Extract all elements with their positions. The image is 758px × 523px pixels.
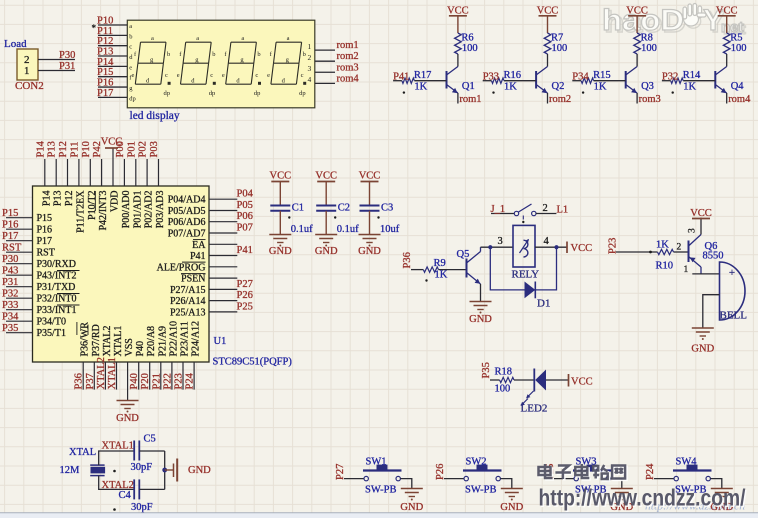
svg-text:SW-PB: SW-PB <box>465 484 497 495</box>
svg-text:e: e <box>222 72 225 79</box>
svg-text:VDD: VDD <box>110 191 121 213</box>
svg-text:100: 100 <box>495 384 511 395</box>
svg-text:P04: P04 <box>237 189 254 200</box>
svg-text:dp: dp <box>254 90 261 97</box>
wire U1 left pin P15 <box>6 217 33 219</box>
svg-text:b: b <box>303 51 306 58</box>
svg-text:1: 1 <box>684 265 689 275</box>
svg-text:+: + <box>729 267 735 279</box>
svg-text:R8: R8 <box>641 33 653 44</box>
svg-text:P05/AD5: P05/AD5 <box>168 206 206 217</box>
svg-text:P26: P26 <box>435 464 446 480</box>
svg-text:P24: P24 <box>185 372 196 389</box>
wire U1 bottom pin P21/A9 <box>160 362 162 390</box>
capacitor C3 <box>360 205 380 207</box>
svg-text:1: 1 <box>308 42 312 51</box>
svg-text:J_1: J_1 <box>491 204 506 215</box>
svg-text:1: 1 <box>24 65 30 77</box>
svg-text:10uf: 10uf <box>380 224 400 235</box>
wire U1 bottom pin P40 <box>138 362 140 390</box>
svg-text:P41: P41 <box>393 72 409 83</box>
svg-text:SW1: SW1 <box>366 456 387 467</box>
7-segment digit 2 <box>177 35 216 97</box>
svg-text:VCC: VCC <box>571 376 593 387</box>
junction marker <box>288 216 290 218</box>
wire U1 bottom pin XTAL2 <box>104 362 106 390</box>
wire emitter <box>547 93 549 104</box>
svg-text:P30: P30 <box>59 50 75 61</box>
svg-text:1K: 1K <box>656 240 669 251</box>
svg-text:P31: P31 <box>59 61 75 72</box>
svg-text:VCC: VCC <box>359 170 381 181</box>
wire display pin f <box>98 76 127 78</box>
switch SW4 <box>673 465 712 481</box>
svg-text:SW-PB: SW-PB <box>365 484 397 495</box>
wire U1 left pin P35/T1 <box>6 332 33 334</box>
svg-text:e: e <box>132 72 135 79</box>
svg-text:P27: P27 <box>335 464 346 480</box>
svg-text:R10: R10 <box>656 261 674 272</box>
wire U1 right pin PSEN <box>209 277 237 279</box>
svg-text:SW4: SW4 <box>676 456 698 467</box>
wire U1 right pin EA <box>209 243 237 245</box>
svg-text:P41: P41 <box>237 245 253 256</box>
bell BELL <box>720 262 746 320</box>
resistor R14 <box>671 78 684 83</box>
ground GND (BELL) <box>692 327 714 329</box>
svg-text:VCC: VCC <box>690 208 712 219</box>
svg-text:R17: R17 <box>414 70 432 81</box>
7-segment digit 1 <box>132 35 171 97</box>
wire U1 top pin P42/INT3 <box>101 159 103 186</box>
7-segment digit 3 <box>222 35 261 97</box>
svg-text:rom4: rom4 <box>337 73 360 84</box>
wire U1 left pin P34/T0 <box>6 320 33 322</box>
svg-text:0.1uf: 0.1uf <box>337 224 359 235</box>
svg-text:P34: P34 <box>572 72 589 83</box>
svg-text:100: 100 <box>641 43 657 54</box>
wire emitter <box>636 93 638 104</box>
junction marker <box>492 91 494 93</box>
svg-text:3: 3 <box>688 228 698 233</box>
svg-text:EA: EA <box>192 240 206 251</box>
svg-text:30pF: 30pF <box>131 502 153 513</box>
svg-text:VCC: VCC <box>716 6 738 17</box>
svg-text:3: 3 <box>308 64 312 73</box>
transistor Q2 <box>536 67 547 94</box>
wire U1 left pin P31/TXD <box>6 286 33 288</box>
wire node 3 <box>481 246 514 248</box>
capacitor C4 <box>133 479 135 499</box>
svg-text:GND: GND <box>691 344 714 355</box>
wire U1 left pin P33/INT1 <box>6 309 33 311</box>
power port VCC (relay) <box>566 242 568 254</box>
svg-text:P04/AD4: P04/AD4 <box>168 195 206 206</box>
svg-text:P24/A12: P24/A12 <box>191 321 202 357</box>
junction marker <box>672 91 674 93</box>
svg-text:VCC: VCC <box>101 137 123 148</box>
svg-text:a: a <box>287 35 290 42</box>
wire emitter <box>457 93 459 104</box>
svg-text:rom3: rom3 <box>639 94 661 105</box>
wire C5 right <box>139 450 164 452</box>
svg-text:GND: GND <box>269 246 292 257</box>
ground GND (SW2) <box>501 488 523 490</box>
svg-text:b: b <box>129 33 132 40</box>
svg-text:XTAL: XTAL <box>69 447 96 458</box>
wire U1 top pin P13 <box>55 159 57 186</box>
svg-text:P00/AD0: P00/AD0 <box>121 191 132 229</box>
svg-text:P16: P16 <box>97 78 113 89</box>
svg-text:P31/TXD: P31/TXD <box>37 282 76 293</box>
svg-text:P16: P16 <box>37 225 53 236</box>
svg-text:P23/A11: P23/A11 <box>180 321 191 356</box>
svg-text:P12: P12 <box>64 191 75 207</box>
svg-text:P13: P13 <box>53 191 64 207</box>
svg-text:C2: C2 <box>338 203 350 214</box>
wire to SW3 <box>554 478 574 480</box>
overline INT <box>57 293 80 295</box>
resistor R10 <box>658 249 674 254</box>
svg-text:GND: GND <box>400 502 423 513</box>
svg-text:e: e <box>129 64 132 71</box>
wire U1 right pin P07/AD7 <box>209 232 237 234</box>
svg-text:P35: P35 <box>481 362 492 378</box>
wire base (P33) <box>483 80 492 82</box>
wire U1 bottom pin P37/RD <box>93 362 95 390</box>
svg-text:Q1: Q1 <box>462 81 475 92</box>
wire display pin d <box>98 55 127 57</box>
svg-text:P13: P13 <box>47 141 58 157</box>
svg-text:c: c <box>165 72 168 79</box>
svg-text:P17: P17 <box>37 236 53 247</box>
svg-text:P30: P30 <box>2 254 18 265</box>
wire base Q5 <box>411 269 423 271</box>
IC U1 body <box>33 186 210 362</box>
junction marker <box>425 279 427 281</box>
watermark haoDIY.net logo <box>604 6 746 39</box>
ground GND (Q5) <box>470 301 492 303</box>
svg-text:c: c <box>210 72 213 79</box>
svg-text:P40: P40 <box>135 341 146 357</box>
wire U1 right pin ALE/PROG <box>209 266 237 268</box>
svg-text:XTAL1: XTAL1 <box>102 441 134 452</box>
svg-text:P36: P36 <box>402 252 413 268</box>
wire bell pin2 <box>703 295 720 328</box>
svg-text:VCC: VCC <box>537 6 559 17</box>
svg-text:P10: P10 <box>81 141 92 157</box>
svg-text:rom3: rom3 <box>337 62 359 73</box>
svg-text:P03/AD3: P03/AD3 <box>155 191 166 229</box>
svg-text:rom2: rom2 <box>337 51 359 62</box>
ground GND (U1 VSS) <box>117 400 139 402</box>
wire U1 right pin P41 <box>209 255 237 257</box>
transistor Q1 <box>447 67 458 94</box>
resistor R9 <box>423 267 438 272</box>
svg-text:P34/T0: P34/T0 <box>37 317 66 328</box>
svg-text:VCC: VCC <box>571 243 593 254</box>
svg-text:P43/INT2: P43/INT2 <box>37 271 77 282</box>
svg-text:Q4: Q4 <box>731 81 745 92</box>
svg-text:http://www.cndzz.com/: http://www.cndzz.com/ <box>539 485 747 511</box>
ground GND (C3) <box>359 234 381 236</box>
svg-text:STC89C51(PQFP): STC89C51(PQFP) <box>213 357 293 368</box>
svg-text:dp: dp <box>209 90 216 97</box>
junction marker <box>403 91 405 93</box>
wire display com pin 4 <box>315 82 335 84</box>
wire U1 right pin P04/AD4 <box>209 198 237 200</box>
svg-text:P22/A10: P22/A10 <box>168 321 179 357</box>
svg-text:b: b <box>167 51 170 58</box>
svg-text:P36: P36 <box>74 373 85 389</box>
ground GND (XTAL) <box>173 464 175 478</box>
svg-text:GND: GND <box>358 246 381 257</box>
led arrows <box>528 391 534 397</box>
svg-text:P01/AD1: P01/AD1 <box>132 191 143 229</box>
svg-text:2: 2 <box>308 53 312 62</box>
resistor R16 <box>492 78 505 83</box>
svg-text:PSEN: PSEN <box>181 274 205 285</box>
svg-text:1K: 1K <box>683 82 696 93</box>
wire U1 bottom pin P22/A10 <box>171 362 173 390</box>
resistor R18 <box>500 377 514 382</box>
svg-text:c: c <box>255 72 258 79</box>
svg-text:P31: P31 <box>2 277 18 288</box>
diode D1 loop wire <box>490 247 524 290</box>
svg-text:U1: U1 <box>214 336 227 347</box>
transistor Q5 <box>467 247 481 284</box>
overline RD <box>87 325 89 336</box>
svg-text:XTAL2: XTAL2 <box>102 326 113 357</box>
wire U1 top pin P14 <box>44 159 46 186</box>
svg-text:rom1: rom1 <box>337 40 359 51</box>
wire U1 right pin P25/A13 <box>209 311 237 313</box>
svg-text:VCC: VCC <box>626 6 648 17</box>
svg-text:1K: 1K <box>435 270 448 281</box>
switch SW1 <box>363 465 402 481</box>
svg-text:P01: P01 <box>126 141 137 157</box>
svg-text:c: c <box>301 72 304 79</box>
svg-text:R5: R5 <box>730 33 742 44</box>
wire base Q6 <box>616 251 658 253</box>
relay coil <box>524 240 528 257</box>
svg-text:P06: P06 <box>237 211 253 222</box>
svg-text:1K: 1K <box>414 82 427 93</box>
svg-text:C5: C5 <box>144 434 156 445</box>
bottom strip <box>0 513 758 518</box>
relay contact switch J_1 / L1 <box>491 204 556 223</box>
overline PSEN <box>181 272 206 274</box>
capacitor C2 <box>316 205 336 207</box>
svg-text:P20/A8: P20/A8 <box>146 326 157 357</box>
wire U1 bottom pin P20/A8 <box>149 362 151 390</box>
svg-text:P26: P26 <box>237 290 253 301</box>
wire collector <box>457 54 459 67</box>
crystal XTAL <box>90 465 104 476</box>
svg-text:b: b <box>257 51 260 58</box>
svg-text:P03: P03 <box>149 141 160 157</box>
svg-text:R15: R15 <box>593 70 611 81</box>
junction marker <box>113 470 116 473</box>
svg-text:P33: P33 <box>2 300 18 311</box>
svg-text:P17: P17 <box>97 88 113 99</box>
svg-text:P22: P22 <box>162 373 173 389</box>
svg-text:P25: P25 <box>237 301 253 312</box>
svg-text:P33: P33 <box>483 72 499 83</box>
resistor R15 <box>581 78 594 83</box>
svg-text:LED2: LED2 <box>521 403 548 415</box>
svg-text:D1: D1 <box>537 298 550 310</box>
capacitor C1 <box>270 205 290 207</box>
wire U1 top pin VDD <box>112 148 114 186</box>
wire collector <box>636 54 638 67</box>
wire U1 top pin P01/AD1 <box>135 159 137 186</box>
junction node 3 <box>488 245 492 249</box>
svg-text:P41: P41 <box>190 251 206 262</box>
svg-text:2: 2 <box>543 203 548 214</box>
overline PROG <box>182 261 206 263</box>
svg-text:P26/A14: P26/A14 <box>170 296 206 307</box>
wire U1 top pin P03/AD3 <box>158 159 160 186</box>
svg-text:R9: R9 <box>434 258 446 269</box>
wire to ground <box>279 211 281 235</box>
svg-text:XTAL1: XTAL1 <box>113 326 124 357</box>
svg-text:100: 100 <box>731 43 747 54</box>
svg-text:P06/AD6: P06/AD6 <box>168 217 206 228</box>
svg-text:Q2: Q2 <box>552 81 565 92</box>
wire node 4 <box>535 246 567 248</box>
svg-text:P12: P12 <box>58 141 69 157</box>
junction marker <box>377 216 379 218</box>
wire U1 right pin P27/A15 <box>209 288 237 290</box>
wire to ground <box>500 479 511 488</box>
wire U1 bottom pin P24/A12 <box>193 362 195 390</box>
svg-text:rom1: rom1 <box>459 94 481 105</box>
svg-text:VCC: VCC <box>447 6 469 17</box>
wire P31 <box>38 70 75 72</box>
diode D1 <box>525 282 536 299</box>
wire U1 left pin P43/INT2 <box>6 274 33 276</box>
svg-text:P36/WR: P36/WR <box>80 322 91 357</box>
wire R18 left <box>490 379 500 381</box>
ground GND (SW1) <box>401 488 423 490</box>
svg-text:30pF: 30pF <box>131 462 153 473</box>
ground GND (SW4) <box>711 488 733 490</box>
wire U1 left pin RST <box>6 251 33 253</box>
wire to ground <box>610 479 621 488</box>
wire C4 right <box>139 488 164 490</box>
wire R18 right <box>514 379 534 381</box>
svg-text:Q3: Q3 <box>641 81 654 92</box>
junction <box>162 468 167 473</box>
svg-text:P32: P32 <box>2 289 18 300</box>
svg-text:P32/INT0: P32/INT0 <box>37 294 77 305</box>
wire base (P34) <box>572 80 581 82</box>
overline INT <box>57 270 80 272</box>
junction marker <box>334 216 336 218</box>
ground GND (SW3) <box>611 488 633 490</box>
svg-text:RST: RST <box>37 248 55 259</box>
svg-text:Q5: Q5 <box>457 249 470 260</box>
transistor Q4 <box>715 67 726 94</box>
svg-text:P42/INT3: P42/INT3 <box>98 191 109 231</box>
svg-text:P35/T1: P35/T1 <box>37 328 66 339</box>
svg-text:b: b <box>212 51 215 58</box>
svg-text:dp: dp <box>129 95 136 102</box>
wire display com pin 2 <box>315 60 335 62</box>
wire to SW1 <box>344 478 364 480</box>
wire XTAL1 <box>99 451 135 465</box>
svg-text:C4: C4 <box>119 490 132 501</box>
wire to SW2 <box>444 478 464 480</box>
led LED2 <box>533 369 535 392</box>
wire display com pin 3 <box>315 71 335 73</box>
wire XTAL2 <box>99 476 135 490</box>
svg-text:P17: P17 <box>2 231 18 242</box>
svg-text:P34: P34 <box>2 312 19 323</box>
svg-text:P13: P13 <box>97 47 113 58</box>
svg-text:P32: P32 <box>662 72 678 83</box>
ground GND (C2) <box>315 234 337 236</box>
resistor R8 <box>634 33 641 54</box>
svg-text:P21: P21 <box>151 373 162 389</box>
switch SW2 <box>463 465 502 481</box>
svg-text:P05: P05 <box>237 200 253 211</box>
wire U1 top pin P12 <box>67 159 69 186</box>
svg-text:Load: Load <box>4 38 27 50</box>
wire U1 left pin P30/RXD <box>6 263 33 265</box>
svg-text:P11: P11 <box>69 142 80 158</box>
svg-text:P37/RD: P37/RD <box>91 324 102 356</box>
7-segment digit 4 <box>267 35 306 97</box>
wire to ground <box>165 469 173 471</box>
svg-text:P33/INT1: P33/INT1 <box>37 305 77 316</box>
wire bell pin1 <box>692 273 719 275</box>
svg-text:P20: P20 <box>140 373 151 389</box>
svg-text:CON2: CON2 <box>15 80 44 92</box>
svg-text:C1: C1 <box>292 203 304 214</box>
svg-text:a: a <box>196 35 199 42</box>
svg-text:e: e <box>177 72 180 79</box>
svg-text:R18: R18 <box>495 367 513 378</box>
svg-text:1K: 1K <box>504 82 517 93</box>
transistor Q6 <box>689 218 702 274</box>
svg-text:P15: P15 <box>37 213 53 224</box>
overline INT3 <box>94 191 96 211</box>
svg-text:P21/A9: P21/A9 <box>157 326 168 357</box>
svg-text:led display: led display <box>130 110 180 122</box>
wire U1 right pin P26/A14 <box>209 300 237 302</box>
wire U1 right pin P06/AD6 <box>209 221 237 223</box>
svg-text:P24: P24 <box>645 463 656 480</box>
svg-text:*: * <box>92 23 97 33</box>
wire collector <box>726 54 728 67</box>
wire P30 <box>38 59 75 61</box>
svg-text:rom4: rom4 <box>728 94 751 105</box>
svg-text:P07/AD7: P07/AD7 <box>168 229 206 240</box>
svg-text:ALE/PROG: ALE/PROG <box>157 262 206 273</box>
wire emitter Q5 <box>480 284 482 301</box>
svg-text:VCC: VCC <box>270 170 292 181</box>
wire right vertical <box>164 451 166 489</box>
svg-text:XTAL1: XTAL1 <box>107 357 118 389</box>
svg-text:P11/T2EX: P11/T2EX <box>75 190 86 233</box>
svg-text:P40: P40 <box>129 373 140 389</box>
svg-text:P27: P27 <box>237 279 253 290</box>
wire U1 bottom pin P36/WR <box>82 362 84 390</box>
svg-text:dp: dp <box>299 90 306 97</box>
svg-text:P02: P02 <box>138 141 149 157</box>
